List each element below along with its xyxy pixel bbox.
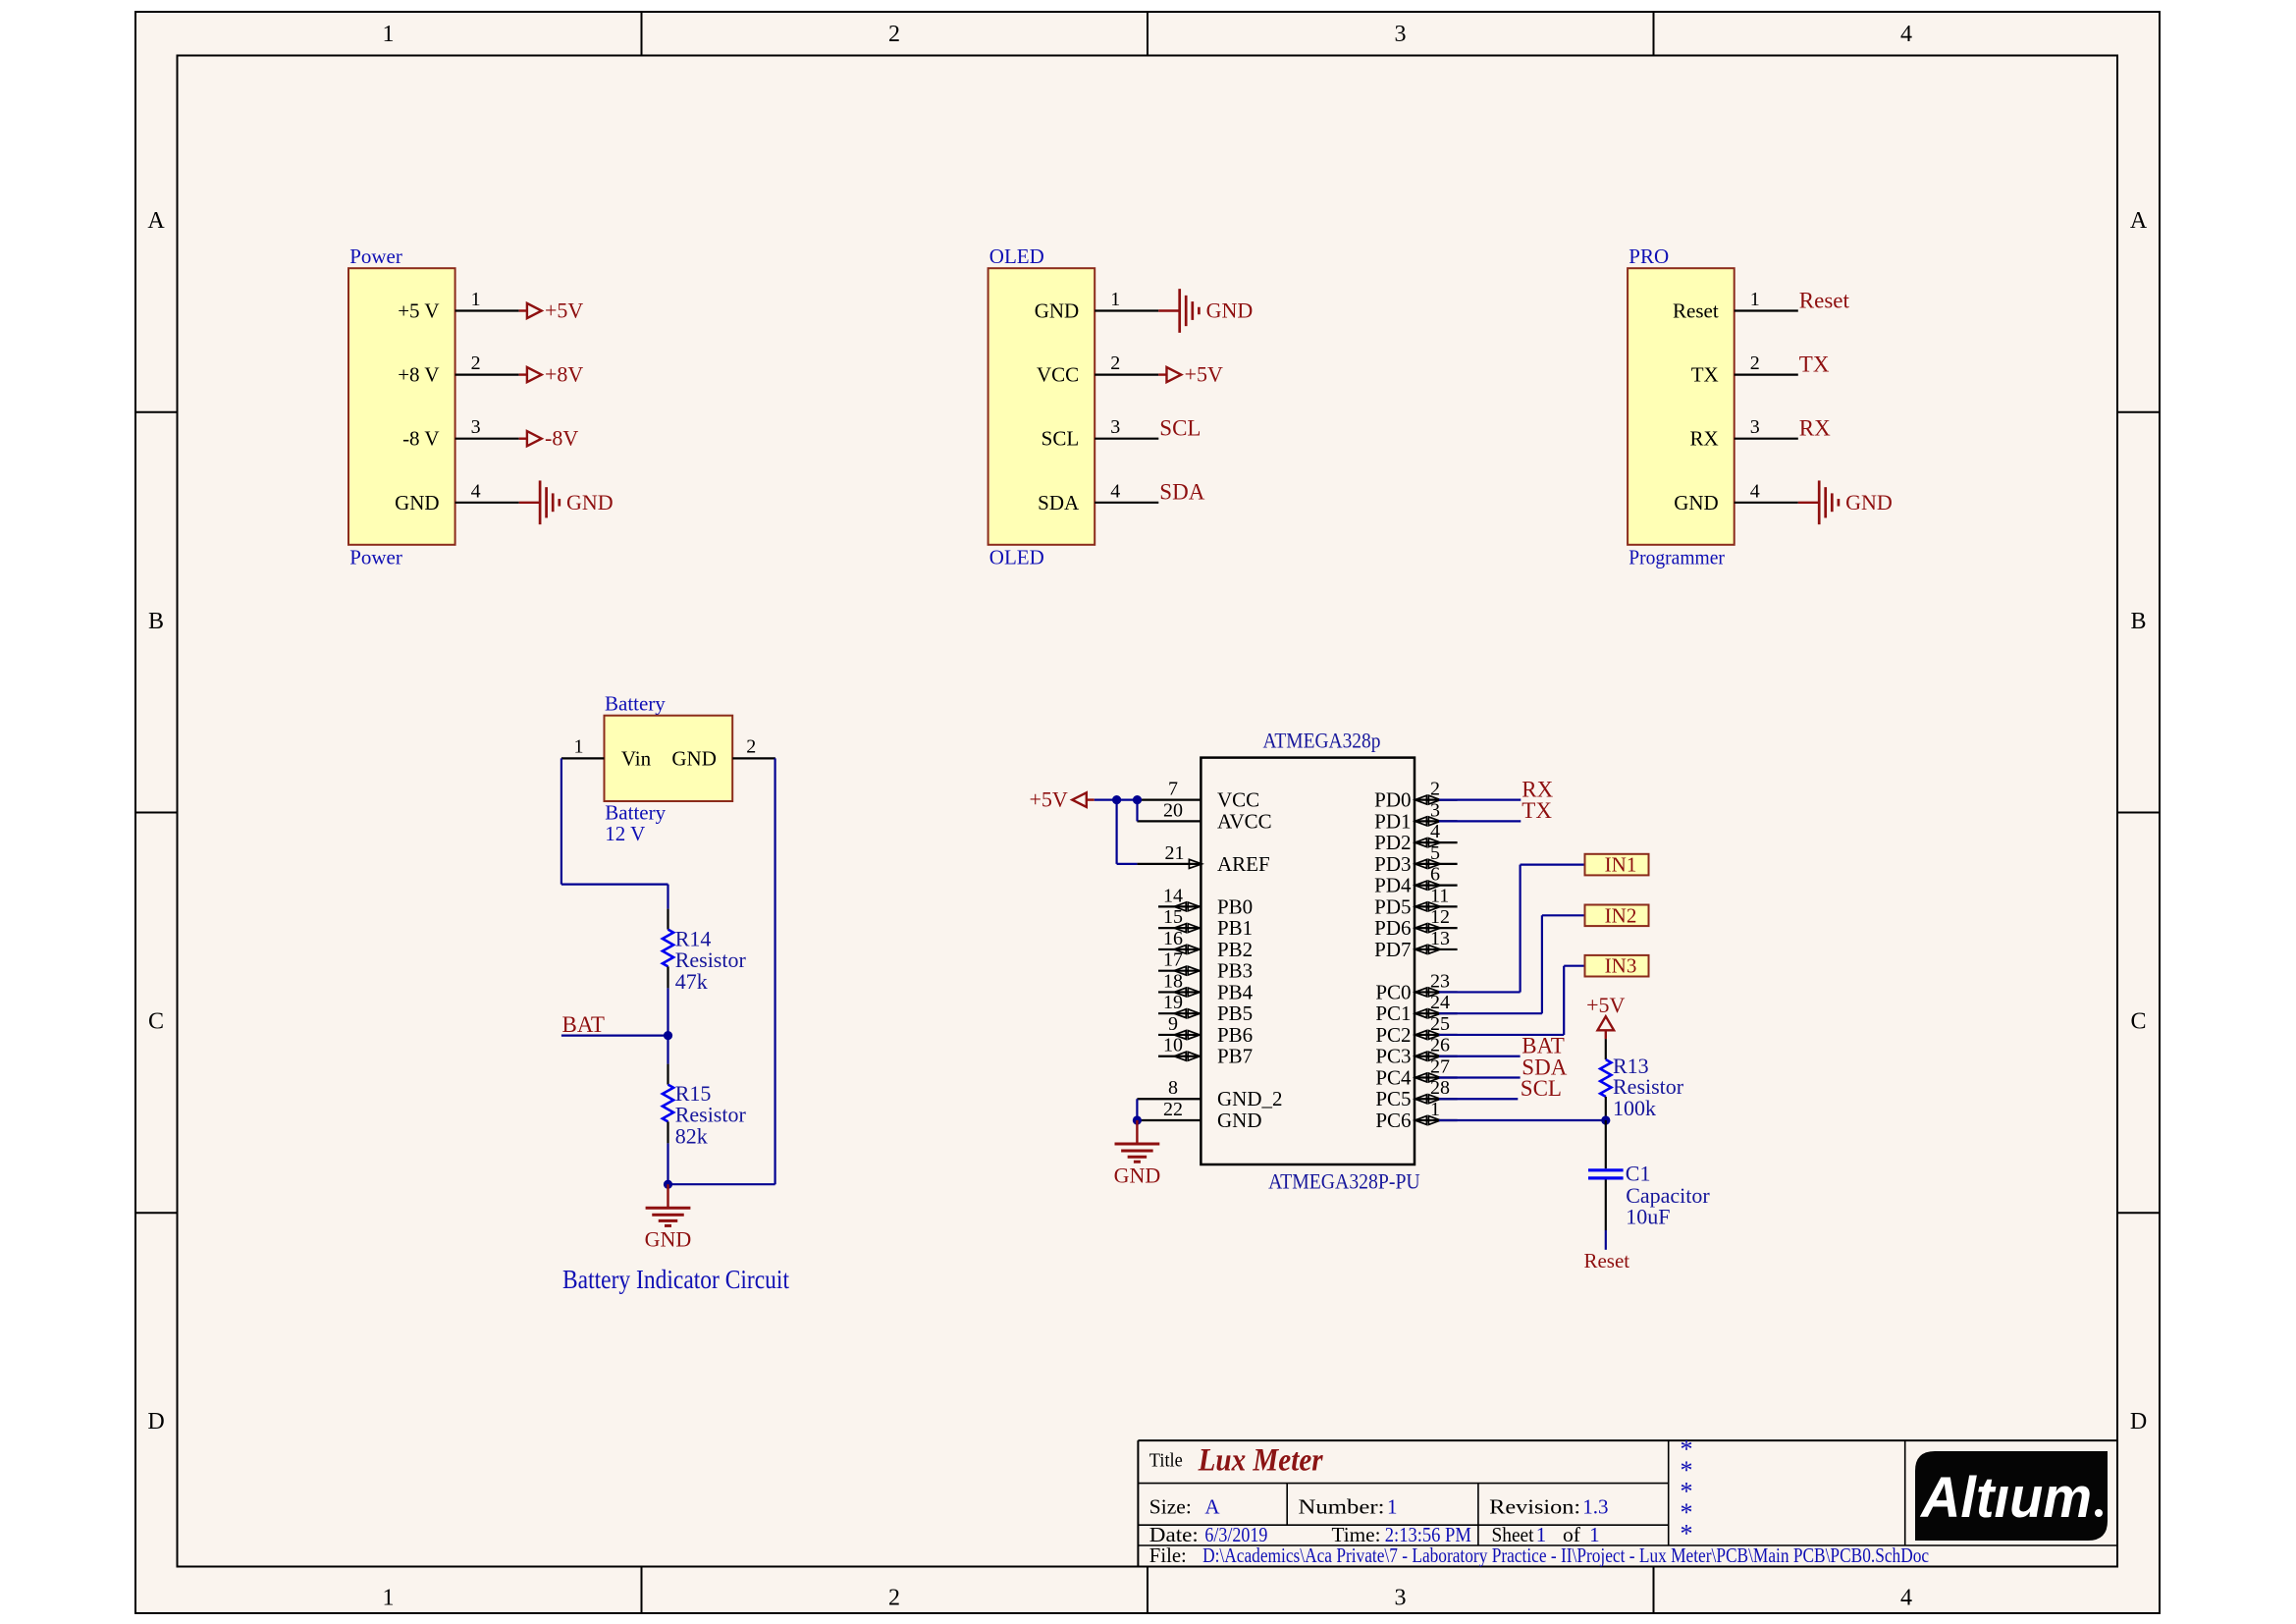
wire: PC6 to reset node [1439, 1119, 1606, 1121]
wire: GND_2 to GND junction [1136, 1099, 1138, 1120]
svg-text:IN1: IN1 [1605, 853, 1637, 877]
svg-text:+8 V: +8 V [398, 363, 439, 387]
svg-text:17: 17 [1163, 949, 1183, 971]
wire: C1 to Reset [1605, 1230, 1607, 1250]
svg-text:GND: GND [645, 1227, 692, 1252]
svg-text:100k: 100k [1613, 1096, 1656, 1120]
svg-text:4: 4 [1430, 821, 1440, 842]
wire: PC3 to BAT [1439, 1056, 1521, 1057]
PRO pin 3 (RX) [1690, 416, 1798, 451]
svg-text:SCL: SCL [1041, 427, 1080, 451]
svg-text:IN2: IN2 [1605, 903, 1637, 927]
svg-text:4: 4 [471, 480, 481, 502]
U1 pin 25 PC2 [1375, 1013, 1457, 1047]
svg-text:1: 1 [383, 22, 395, 47]
svg-text:47k: 47k [675, 969, 708, 994]
svg-text:28: 28 [1430, 1077, 1450, 1099]
U1 pin 24 PC1 [1375, 992, 1457, 1025]
svg-text:2: 2 [471, 352, 481, 374]
svg-text:Altıum: Altıum [1919, 1466, 2092, 1530]
title block [1138, 1435, 2117, 1567]
power port +5V (above R13) [1586, 993, 1625, 1039]
svg-text:16: 16 [1163, 928, 1183, 949]
junction on +5V line (AVCC branch) [1133, 795, 1142, 804]
svg-text:PC4: PC4 [1375, 1065, 1412, 1089]
svg-text:AVCC: AVCC [1217, 809, 1272, 833]
svg-text:82k: 82k [675, 1124, 708, 1149]
ground GND (PRO pin 4) [1798, 480, 1893, 524]
svg-text:14: 14 [1163, 885, 1183, 906]
connector OLED (sheet symbol) [988, 244, 1095, 568]
net label TX (PD1) [1522, 798, 1552, 823]
svg-text:Programmer: Programmer [1629, 545, 1725, 568]
U1 pin 7 VCC [1137, 779, 1259, 812]
svg-text:*: * [1681, 1519, 1693, 1547]
net label Reset (bottom) [1583, 1249, 1629, 1272]
svg-text:PB3: PB3 [1217, 959, 1253, 983]
svg-text:22: 22 [1163, 1099, 1183, 1120]
svg-text:PD4: PD4 [1374, 874, 1412, 897]
op-amp U1 ATMEGA328p body [1201, 729, 1419, 1194]
resistor R14 47k [663, 909, 747, 994]
svg-text:9: 9 [1168, 1013, 1178, 1035]
svg-text:19: 19 [1163, 992, 1183, 1013]
svg-text:RX: RX [1690, 427, 1719, 451]
svg-text:18: 18 [1163, 970, 1183, 992]
svg-text:GND: GND [1674, 491, 1719, 514]
svg-text:B: B [2130, 609, 2146, 634]
svg-text:1: 1 [574, 735, 584, 757]
capacitor C1 10uF [1588, 1120, 1710, 1230]
connector Power (sheet symbol) [348, 244, 455, 568]
wire: +5V to VCC pin [1095, 798, 1138, 800]
ground GND (OLED pin 1) [1158, 289, 1253, 333]
wire: jog down to R14 [667, 885, 668, 909]
svg-text:PRO: PRO [1629, 244, 1669, 268]
junction on +5V line (AREF branch) [1112, 795, 1121, 804]
svg-text:23: 23 [1430, 970, 1450, 992]
svg-text:11: 11 [1430, 885, 1449, 906]
svg-text:24: 24 [1430, 992, 1450, 1013]
svg-text:+5V: +5V [1185, 362, 1223, 387]
svg-text:27: 27 [1430, 1056, 1450, 1077]
svg-text:10uF: 10uF [1626, 1205, 1670, 1229]
port IN3 [1585, 954, 1649, 978]
svg-text:C1: C1 [1626, 1162, 1651, 1186]
U1 pin 2 PD0 [1374, 779, 1457, 812]
wire: R13 to reset junction [1605, 1118, 1607, 1120]
svg-text:+5 V: +5 V [398, 299, 439, 323]
svg-text:GND: GND [671, 747, 717, 771]
junction: BAT node [664, 1031, 672, 1040]
svg-text:8: 8 [1168, 1077, 1178, 1099]
svg-text:PB4: PB4 [1217, 980, 1254, 1003]
wire: Battery pin1 down-left leg [561, 758, 668, 884]
wire: Battery pin2 right leg [668, 758, 775, 1184]
svg-text:PD2: PD2 [1374, 831, 1411, 854]
svg-text:PC1: PC1 [1375, 1001, 1411, 1025]
svg-text:6: 6 [1430, 864, 1440, 886]
Battery pin 1 (Vin) [561, 735, 652, 770]
svg-text:Battery Indicator Circuit: Battery Indicator Circuit [562, 1265, 789, 1294]
svg-text:+8V: +8V [545, 362, 583, 387]
svg-text:C: C [148, 1009, 164, 1035]
U1 pin 19 PB5 [1158, 992, 1253, 1025]
U1 pin 13 PD7 [1374, 928, 1457, 961]
power port +5V (OLED) [1158, 362, 1223, 387]
resistor R15 82k [667, 1036, 668, 1064]
Power pin 2 (+8 V) [398, 352, 518, 387]
U1 pin 23 PC0 [1375, 970, 1457, 1003]
svg-text:-8 V: -8 V [402, 427, 440, 451]
svg-text:1.3: 1.3 [1582, 1495, 1608, 1519]
power port +5V [519, 298, 584, 323]
wire: R15 to bottom junction [667, 1143, 668, 1184]
OLED pin 4 (SDA) [1038, 480, 1158, 514]
svg-text:1: 1 [471, 289, 481, 310]
svg-text:PC6: PC6 [1375, 1109, 1411, 1132]
svg-text:AREF: AREF [1217, 852, 1270, 876]
svg-text:3: 3 [1395, 22, 1407, 47]
wire: branch to AREF [1117, 800, 1138, 864]
OLED pin 2 (VCC) [1037, 352, 1158, 387]
port IN1 [1585, 853, 1649, 877]
svg-text:Power: Power [349, 545, 402, 568]
svg-text:TX: TX [1691, 363, 1719, 387]
svg-text:OLED: OLED [989, 244, 1044, 268]
svg-text:3: 3 [1110, 416, 1120, 438]
U1 pin 6 PD4 [1374, 864, 1457, 897]
svg-text:Reset: Reset [1673, 299, 1719, 323]
svg-text:SDA: SDA [1038, 491, 1080, 514]
U1 pin 5 PD3 [1374, 842, 1457, 876]
svg-text:Battery: Battery [605, 692, 666, 716]
svg-text:SCL: SCL [1159, 416, 1201, 441]
svg-text:12: 12 [1430, 906, 1450, 928]
power port -8V [519, 426, 579, 451]
OLED pin 3 (SCL) [1041, 416, 1159, 451]
U1 pin 14 PB0 [1158, 885, 1253, 918]
svg-text:GND: GND [566, 490, 614, 514]
U1 pin 8 GND_2 [1137, 1077, 1282, 1110]
PRO pin 4 (GND) [1674, 480, 1798, 514]
wire: PD1 to TX [1439, 820, 1521, 822]
svg-text:PD3: PD3 [1374, 852, 1411, 876]
svg-text:5: 5 [1430, 842, 1440, 864]
resistor R13 100k [1600, 1039, 1684, 1120]
svg-text:Power: Power [349, 244, 402, 268]
svg-text:Number:: Number: [1299, 1495, 1385, 1519]
Power pin 4 (GND) [395, 480, 519, 514]
svg-text:Battery: Battery [605, 801, 666, 825]
svg-text:ATMEGA328p: ATMEGA328p [1263, 729, 1381, 753]
svg-text:Lux Meter: Lux Meter [1198, 1443, 1324, 1479]
svg-text:TX: TX [1522, 798, 1552, 823]
wire: PC1 to IN2 [1439, 915, 1585, 1013]
svg-text:26: 26 [1430, 1035, 1450, 1056]
U1 pin 16 PB2 [1158, 928, 1253, 961]
svg-text:PB2: PB2 [1217, 938, 1253, 961]
Power pin 3 (-8 V) [402, 416, 519, 451]
power port +8V [519, 362, 584, 387]
ground GND (battery divider) [645, 1184, 692, 1252]
wire: PC4 to SDA [1439, 1076, 1521, 1078]
svg-text:15: 15 [1163, 906, 1183, 928]
svg-text:4: 4 [1110, 480, 1120, 502]
svg-text:10: 10 [1163, 1035, 1183, 1056]
svg-text:Size:: Size: [1149, 1495, 1192, 1519]
wire: PC0 to IN1 [1439, 865, 1585, 993]
OLED pin 1 (GND) [1035, 289, 1159, 323]
Power pin 1 (+5 V) [398, 289, 518, 323]
U1 pin 18 PB4 [1158, 970, 1254, 1003]
wire: PC2 to IN3 [1439, 966, 1585, 1035]
svg-text:GND: GND [1206, 298, 1254, 323]
U1 pin 4 PD2 [1374, 821, 1457, 854]
U1 pin 11 PD5 [1374, 885, 1457, 918]
svg-text:Vin: Vin [621, 747, 652, 771]
svg-text:OLED: OLED [989, 545, 1044, 568]
svg-text:GND: GND [1845, 490, 1893, 514]
svg-text:VCC: VCC [1217, 788, 1259, 812]
svg-text:13: 13 [1430, 928, 1450, 949]
svg-text:PC3: PC3 [1375, 1045, 1411, 1068]
U1 pin 22 GND [1137, 1099, 1261, 1132]
junction: reset node [1601, 1115, 1610, 1124]
svg-text:D:\Academics\Aca Private\7 - L: D:\Academics\Aca Private\7 - Laboratory … [1202, 1543, 1929, 1567]
svg-text:3: 3 [1430, 799, 1440, 821]
svg-text:PC0: PC0 [1375, 980, 1411, 1003]
U1 pin 27 PC4 [1375, 1056, 1457, 1089]
wire: BAT stub [561, 1034, 668, 1036]
svg-text:A: A [1204, 1495, 1220, 1519]
svg-text:2: 2 [746, 735, 756, 757]
PRO pin 2 (TX) [1691, 352, 1798, 387]
svg-text:2: 2 [1110, 352, 1120, 374]
svg-text:PD5: PD5 [1374, 894, 1411, 918]
svg-text:2: 2 [1750, 352, 1760, 374]
svg-text:File:: File: [1149, 1543, 1187, 1567]
svg-text:20: 20 [1163, 799, 1183, 821]
svg-text:21: 21 [1165, 842, 1185, 864]
svg-text:PD0: PD0 [1374, 788, 1411, 812]
svg-text:TX: TX [1799, 352, 1830, 376]
svg-text:D: D [2130, 1409, 2147, 1435]
svg-text:PB6: PB6 [1217, 1023, 1253, 1047]
svg-text:PC2: PC2 [1375, 1023, 1411, 1047]
svg-text:2: 2 [1430, 779, 1440, 800]
svg-text:1: 1 [1387, 1495, 1398, 1519]
wire: branch to AVCC [1136, 800, 1138, 822]
svg-text:1: 1 [1110, 289, 1120, 310]
PRO pin 1 (Reset) [1673, 289, 1798, 323]
net label BAT [562, 1012, 605, 1037]
wire: R14 to BAT junction [667, 988, 668, 1035]
svg-text:Revision:: Revision: [1489, 1495, 1580, 1519]
svg-text:1: 1 [1750, 289, 1760, 310]
svg-text:3: 3 [1395, 1586, 1407, 1611]
U1 pin 17 PB3 [1158, 949, 1253, 983]
svg-text:PB0: PB0 [1217, 894, 1253, 918]
svg-text:PB7: PB7 [1217, 1045, 1253, 1068]
U1 pin 15 PB1 [1158, 906, 1253, 940]
net label SCL (PC5) [1521, 1076, 1562, 1101]
wire: PD0 to RX [1439, 798, 1521, 800]
svg-text:GND: GND [1035, 299, 1080, 323]
svg-text:SDA: SDA [1159, 480, 1204, 505]
svg-text:SCL: SCL [1521, 1076, 1562, 1101]
svg-text:Title: Title [1149, 1450, 1183, 1472]
net label BAT (PC3) [1522, 1034, 1564, 1058]
U1 pin 1 PC6 [1375, 1099, 1457, 1132]
svg-text:4: 4 [1900, 22, 1912, 47]
svg-text:GND: GND [1114, 1164, 1161, 1188]
net label SDA (PC4) [1522, 1055, 1567, 1079]
svg-text:C: C [2130, 1009, 2146, 1035]
svg-text:PB5: PB5 [1217, 1001, 1253, 1025]
U1 pin 26 PC3 [1375, 1035, 1457, 1068]
U1 pin 28 PC5 [1375, 1077, 1457, 1110]
svg-text:ATMEGA328P-PU: ATMEGA328P-PU [1268, 1169, 1420, 1194]
svg-text:4: 4 [1900, 1586, 1912, 1611]
svg-text:D: D [147, 1409, 164, 1435]
svg-text:1: 1 [383, 1586, 395, 1611]
svg-text:VCC: VCC [1037, 363, 1079, 387]
svg-text:RX: RX [1799, 416, 1831, 441]
svg-text:GND_2: GND_2 [1217, 1087, 1283, 1110]
ground GND (Power pin 4) [519, 480, 614, 524]
svg-text:4: 4 [1750, 480, 1760, 502]
Altium logo [1915, 1451, 2108, 1541]
svg-text:1: 1 [1430, 1099, 1440, 1120]
wire: PC5 to SCL [1439, 1098, 1518, 1100]
U1 pin 10 PB7 [1158, 1035, 1253, 1068]
connector PRO / Programmer (sheet symbol) [1628, 244, 1735, 568]
power port +5V (left of U1) [1030, 787, 1095, 812]
U1 pin 3 PD1 [1374, 799, 1457, 833]
svg-text:Reset: Reset [1799, 288, 1850, 312]
Battery pin 2 (GND) [671, 735, 774, 770]
svg-text:GND: GND [1217, 1109, 1262, 1132]
ground GND (U1) [1114, 1120, 1161, 1188]
svg-text:IN3: IN3 [1605, 954, 1637, 978]
junction: battery bottom node [664, 1180, 672, 1189]
svg-text:7: 7 [1168, 779, 1178, 800]
svg-text:PD1: PD1 [1374, 809, 1411, 833]
svg-text:PD7: PD7 [1374, 938, 1411, 961]
svg-text:3: 3 [471, 416, 481, 438]
svg-text:3: 3 [1750, 416, 1760, 438]
svg-text:Reset: Reset [1583, 1249, 1629, 1272]
svg-text:A: A [147, 208, 165, 234]
svg-text:+5V: +5V [1586, 993, 1625, 1017]
svg-text:GND: GND [395, 491, 440, 514]
svg-text:PD6: PD6 [1374, 916, 1411, 940]
junction: U1 ground node [1133, 1115, 1142, 1124]
svg-text:BAT: BAT [562, 1012, 605, 1037]
svg-text:B: B [148, 609, 164, 634]
svg-text:+5V: +5V [545, 298, 583, 323]
svg-text:+5V: +5V [1030, 787, 1068, 812]
svg-text:A: A [2130, 208, 2148, 234]
svg-text:PB1: PB1 [1217, 916, 1253, 940]
U1 pin 20 AVCC [1137, 799, 1271, 833]
battery connector Battery (sheet symbol) [605, 692, 733, 846]
U1 pin 9 PB6 [1158, 1013, 1253, 1047]
svg-text:2: 2 [888, 1586, 900, 1611]
svg-text:-8V: -8V [545, 426, 578, 451]
U1 pin 21 AREF [1137, 842, 1269, 876]
net label RX (PD0) [1522, 777, 1553, 801]
svg-text:25: 25 [1430, 1013, 1450, 1035]
svg-text:2: 2 [888, 22, 900, 47]
port IN2 [1585, 903, 1649, 927]
caption: Battery Indicator Circuit [562, 1265, 789, 1294]
svg-text:PC5: PC5 [1375, 1087, 1411, 1110]
U1 pin 12 PD6 [1374, 906, 1457, 940]
svg-text:12 V: 12 V [605, 822, 645, 845]
